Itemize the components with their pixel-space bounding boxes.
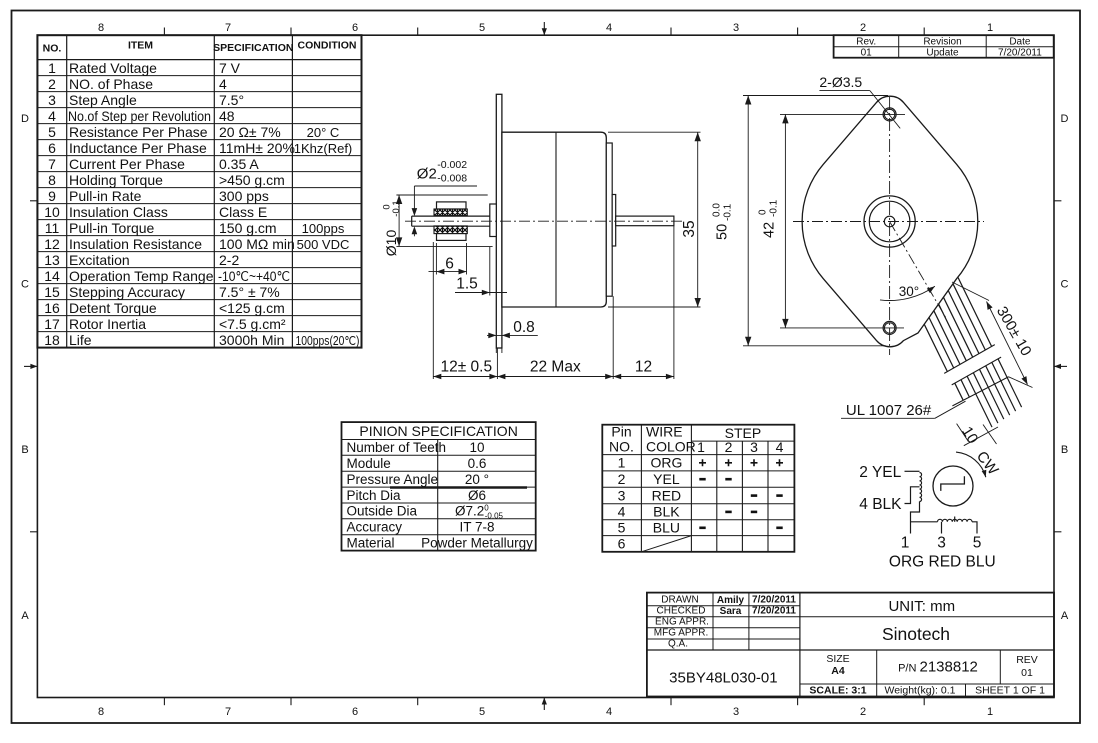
svg-text:Class E: Class E: [219, 204, 267, 220]
svg-text:Excitation: Excitation: [69, 252, 130, 268]
svg-text:Date: Date: [1009, 36, 1031, 47]
rotor symbol inside circle: [941, 476, 965, 491]
pinion table thick scan line: [390, 486, 527, 489]
svg-text:4: 4: [776, 439, 784, 455]
svg-text:01: 01: [1021, 667, 1033, 679]
front view: flange outline: [802, 96, 978, 347]
side view: pinion top cap: [437, 202, 467, 209]
svg-text:20° C: 20° C: [307, 125, 340, 140]
svg-text:<7.5 g.cm²: <7.5 g.cm²: [219, 316, 286, 332]
svg-text:5: 5: [479, 22, 485, 34]
svg-text:14: 14: [44, 268, 60, 284]
svg-text:C: C: [21, 279, 29, 291]
svg-text:0.6: 0.6: [468, 456, 487, 471]
dimension 42 0/-0.1: [780, 113, 905, 115]
svg-text:-0.002: -0.002: [437, 159, 467, 171]
svg-text:6: 6: [445, 256, 454, 273]
svg-text:NO. of Phase: NO. of Phase: [69, 76, 153, 92]
svg-text:Ø10: Ø10: [383, 230, 399, 257]
svg-text:100 MΩ min: 100 MΩ min: [219, 236, 295, 252]
svg-text:3: 3: [733, 22, 739, 34]
svg-text:RED: RED: [652, 487, 682, 503]
coil B (horizontal): [938, 519, 973, 521]
svg-text:Powder Metallurgy: Powder Metallurgy: [421, 536, 533, 551]
wire from BLK to coil tap: [905, 487, 920, 504]
svg-text:1: 1: [48, 60, 56, 76]
svg-text:01: 01: [861, 48, 873, 59]
svg-text:12± 0.5: 12± 0.5: [440, 359, 492, 376]
svg-text:3: 3: [750, 439, 758, 455]
svg-text:Ø2: Ø2: [417, 166, 437, 183]
svg-text:Detent Torque: Detent Torque: [69, 300, 157, 316]
pin table grid: [640, 425, 642, 552]
svg-text:Insulation Class: Insulation Class: [69, 204, 168, 220]
svg-text:8: 8: [98, 706, 104, 718]
svg-text:5: 5: [48, 124, 56, 140]
svg-text:Sara: Sara: [720, 606, 742, 617]
svg-text:9: 9: [48, 188, 56, 204]
svg-text:7.5° ± 7%: 7.5° ± 7%: [219, 284, 280, 300]
svg-text:Resistance Per Phase: Resistance Per Phase: [69, 124, 208, 140]
cable wire strands section 2: [955, 383, 963, 400]
svg-text:B: B: [1061, 444, 1068, 456]
svg-text:4 BLK: 4 BLK: [859, 496, 902, 513]
svg-text:Rev.: Rev.: [856, 36, 876, 47]
svg-text:8: 8: [48, 172, 56, 188]
cable end edge: [952, 377, 1008, 406]
svg-text:5: 5: [479, 706, 485, 718]
cable wire tails: [967, 376, 992, 427]
svg-text:13: 13: [44, 252, 60, 268]
svg-text:15: 15: [44, 284, 60, 300]
svg-text:7.5°: 7.5°: [219, 92, 244, 108]
svg-text:3000h Min: 3000h Min: [219, 332, 284, 348]
svg-text:35: 35: [681, 220, 698, 237]
svg-text:ORG RED BLU: ORG RED BLU: [889, 554, 996, 571]
svg-text:Module: Module: [347, 456, 391, 471]
svg-text:Material: Material: [347, 536, 395, 551]
svg-text:4: 4: [618, 504, 626, 520]
pinion specification table frame: [342, 422, 536, 550]
svg-text:1Khz(Ref): 1Khz(Ref): [294, 141, 353, 156]
svg-text:2: 2: [860, 22, 866, 34]
svg-text:17: 17: [44, 316, 60, 332]
svg-text:1: 1: [987, 22, 993, 34]
side view: pinion bottom cap: [437, 234, 467, 241]
svg-text:COLOR: COLOR: [646, 439, 696, 455]
svg-text:3: 3: [937, 535, 946, 552]
svg-text:Current Per Phase: Current Per Phase: [69, 156, 185, 172]
svg-text:5: 5: [973, 535, 982, 552]
side view: body seam line: [555, 132, 557, 307]
zone boundary tick marks: [163, 28, 165, 36]
svg-text:6: 6: [352, 706, 358, 718]
revision table frame: [834, 35, 1054, 58]
node 3 stub: [941, 522, 943, 534]
wire from YEL to coil: [905, 470, 920, 472]
svg-text:35BY48L030-01: 35BY48L030-01: [669, 670, 777, 687]
side view: rear shaft: [616, 216, 674, 226]
svg-text:A: A: [21, 610, 29, 622]
svg-text:Sinotech: Sinotech: [882, 624, 950, 644]
svg-text:2-2: 2-2: [219, 252, 239, 268]
side view: centerline: [405, 220, 683, 222]
svg-text:0: 0: [758, 209, 769, 215]
svg-text:2 YEL: 2 YEL: [859, 464, 901, 481]
cable wire strands section 1: [924, 324, 947, 371]
svg-text:0.0: 0.0: [712, 203, 723, 217]
svg-text:SCALE: 3:1: SCALE: 3:1: [809, 685, 866, 697]
svg-text:3: 3: [733, 706, 739, 718]
centering marks with arrows: [543, 22, 545, 35]
svg-text:YEL: YEL: [653, 471, 680, 487]
svg-text:UNIT: mm: UNIT: mm: [888, 598, 955, 615]
svg-text:-10℃~+40℃: -10℃~+40℃: [218, 268, 290, 284]
svg-text:7/20/2011: 7/20/2011: [998, 48, 1042, 59]
svg-text:2: 2: [618, 471, 626, 487]
dimension 10 (stripped end): [957, 424, 969, 442]
svg-text:12: 12: [44, 236, 60, 252]
svg-text:WIRE: WIRE: [646, 424, 683, 440]
side view: mounting plate: [496, 94, 502, 348]
svg-text:SIZE: SIZE: [826, 653, 849, 665]
svg-text:Q.A.: Q.A.: [668, 639, 688, 650]
svg-text:1.5: 1.5: [456, 276, 478, 293]
svg-text:Pin: Pin: [611, 424, 631, 440]
CW rotation arc: [956, 452, 986, 477]
svg-text:2: 2: [860, 706, 866, 718]
svg-text:4: 4: [606, 22, 612, 34]
dimension 300 +-10 along cable: [952, 282, 989, 301]
svg-text:Rotor Inertia: Rotor Inertia: [69, 316, 146, 332]
svg-text:D: D: [1061, 113, 1069, 125]
front view: top mounting hole: [883, 108, 896, 121]
svg-text:42: 42: [762, 222, 778, 238]
svg-text:2: 2: [48, 76, 56, 92]
svg-text:0.8: 0.8: [513, 319, 535, 336]
svg-text:ENG APPR.: ENG APPR.: [655, 617, 709, 628]
pinion specification table grid: [437, 440, 439, 551]
svg-text:UL 1007 26#: UL 1007 26#: [846, 402, 932, 419]
svg-text:100pps(20℃): 100pps(20℃): [296, 334, 360, 348]
dimension chain 12+-0.5 / 22 Max / 12: [432, 242, 434, 379]
svg-text:-0.008: -0.008: [437, 173, 467, 185]
svg-text:Operation Temp Range: Operation Temp Range: [69, 268, 214, 284]
svg-text:No.of Step per Revolution: No.of Step per Revolution: [68, 108, 211, 124]
svg-text:300 pps: 300 pps: [219, 188, 269, 204]
svg-text:48: 48: [219, 108, 235, 124]
svg-text:7/20/2011: 7/20/2011: [752, 595, 796, 606]
svg-text:7 V: 7 V: [219, 60, 241, 76]
svg-text:18: 18: [44, 332, 60, 348]
svg-text:1: 1: [618, 455, 626, 471]
svg-text:SPECIFICATION: SPECIFICATION: [213, 42, 293, 54]
svg-text:4: 4: [48, 108, 56, 124]
title block grid: [799, 593, 801, 697]
svg-text:6: 6: [352, 22, 358, 34]
side view: pinion knurled band upper: [434, 209, 467, 216]
svg-text:DRAWN: DRAWN: [661, 595, 698, 606]
svg-text:C: C: [1061, 279, 1069, 291]
svg-text:50: 50: [715, 224, 731, 240]
svg-text:2-Ø3.5: 2-Ø3.5: [819, 74, 862, 90]
pin table row 6 diagonal: [641, 536, 691, 552]
svg-text:6: 6: [48, 140, 56, 156]
front view: shaft boss circles: [864, 196, 915, 247]
svg-text:BLK: BLK: [653, 504, 680, 520]
svg-text:-0.1: -0.1: [769, 199, 780, 217]
svg-text:7/20/2011: 7/20/2011: [752, 606, 796, 617]
svg-text:2: 2: [725, 439, 733, 455]
side view: rear end plate: [606, 143, 612, 296]
svg-text:100pps: 100pps: [302, 221, 345, 236]
svg-text:12: 12: [635, 359, 652, 376]
wire from coil A bottom to node 1: [911, 502, 920, 534]
svg-text:ITEM: ITEM: [128, 40, 153, 52]
title block frame: [647, 593, 1054, 697]
svg-text:D: D: [21, 113, 29, 125]
svg-text:Pull-in Torque: Pull-in Torque: [69, 220, 155, 236]
svg-text:11: 11: [45, 220, 60, 236]
svg-text:Inductance Per Phase: Inductance Per Phase: [69, 140, 207, 156]
svg-text:7: 7: [48, 156, 56, 172]
front view: vertical centerline: [889, 97, 891, 355]
dimension 1.5: [489, 247, 491, 296]
coil A (vertical): [920, 473, 922, 502]
svg-text:ORG: ORG: [650, 455, 682, 471]
svg-text:150 g.cm: 150 g.cm: [219, 220, 277, 236]
svg-text:Outside Dia: Outside Dia: [347, 504, 418, 519]
svg-text:1: 1: [987, 706, 993, 718]
svg-text:SHEET 1 OF 1: SHEET 1 OF 1: [975, 685, 1045, 697]
svg-text:<125 g.cm: <125 g.cm: [219, 300, 285, 316]
front view: 30 degree diagonal centerline: [890, 222, 946, 319]
svg-text:6: 6: [618, 536, 626, 552]
svg-text:REV: REV: [1016, 654, 1038, 666]
svg-text:Weight(kg): 0.1: Weight(kg): 0.1: [884, 685, 955, 697]
svg-text:16: 16: [44, 300, 60, 316]
svg-text:A4: A4: [831, 665, 845, 677]
svg-text:Pitch Dia: Pitch Dia: [347, 488, 402, 503]
side view: rear bearing boss: [612, 195, 616, 247]
svg-text:Life: Life: [69, 332, 92, 348]
svg-text:Insulation Resistance: Insulation Resistance: [69, 236, 202, 252]
svg-text:>450 g.cm: >450 g.cm: [219, 172, 285, 188]
svg-text:4: 4: [606, 706, 612, 718]
svg-text:-0.1: -0.1: [391, 200, 402, 216]
svg-text:Holding Torque: Holding Torque: [69, 172, 163, 188]
svg-text:NO.: NO.: [609, 439, 634, 455]
svg-text:3: 3: [48, 92, 56, 108]
svg-text:-0.1: -0.1: [723, 203, 734, 221]
svg-text:BLU: BLU: [653, 520, 680, 536]
svg-text:Stepping Accuracy: Stepping Accuracy: [69, 284, 185, 300]
specification table frame: [37, 35, 361, 347]
svg-text:Step Angle: Step Angle: [69, 92, 137, 108]
coil B center tap tick: [954, 517, 956, 522]
svg-text:500 VDC: 500 VDC: [297, 237, 350, 252]
svg-text:PINION SPECIFICATION: PINION SPECIFICATION: [359, 423, 517, 439]
svg-text:Ø6: Ø6: [468, 488, 486, 503]
svg-text:11mH± 20%: 11mH± 20%: [219, 140, 295, 156]
svg-text:MFG APPR.: MFG APPR.: [654, 628, 708, 639]
dimension 35 (body diameter): [608, 131, 701, 133]
svg-text:8: 8: [98, 22, 104, 34]
svg-text:22 Max: 22 Max: [530, 359, 581, 376]
dimension 50 0.0/-0.1: [743, 95, 888, 97]
svg-text:IT 7-8: IT 7-8: [459, 520, 494, 535]
svg-text:CONDITION: CONDITION: [298, 40, 357, 52]
specification table grid: [66, 35, 68, 347]
svg-text:7: 7: [225, 706, 231, 718]
svg-text:10: 10: [469, 440, 484, 455]
svg-text:Pull-in Rate: Pull-in Rate: [69, 188, 142, 204]
svg-text:A: A: [1061, 610, 1069, 622]
rotor circle: [933, 466, 973, 506]
svg-text:7: 7: [225, 22, 231, 34]
svg-text:0.35 A: 0.35 A: [219, 156, 259, 172]
dimension 30 degrees arc: [880, 286, 935, 300]
dimension 6 (pinion width): [435, 243, 437, 275]
svg-text:CHECKED: CHECKED: [657, 606, 706, 617]
svg-text:Amily: Amily: [717, 595, 745, 606]
side view: front bearing boss: [490, 204, 497, 237]
svg-text:1: 1: [901, 535, 910, 552]
svg-text:Number of Teeth: Number of Teeth: [347, 440, 447, 455]
pin wire color step table frame: [602, 425, 794, 552]
svg-text:Accuracy: Accuracy: [347, 520, 403, 535]
wire bus to coil B: [911, 521, 938, 523]
svg-text:4: 4: [219, 76, 227, 92]
front view: horizontal centerline: [793, 221, 984, 223]
front view: bottom mounting hole: [883, 321, 896, 334]
svg-text:Pressure Angle: Pressure Angle: [347, 472, 439, 487]
revision table grid: [834, 46, 1054, 48]
svg-text:Update: Update: [926, 48, 959, 59]
svg-text:3: 3: [618, 487, 626, 503]
svg-text:NO.: NO.: [43, 43, 62, 55]
side view: pinion knurled band lower: [434, 226, 467, 234]
dimension 0.8 (plate thickness): [487, 334, 538, 336]
svg-text:20 °: 20 °: [465, 472, 489, 487]
svg-text:Revision: Revision: [923, 36, 961, 47]
svg-text:10: 10: [44, 204, 60, 220]
svg-text:1: 1: [697, 439, 705, 455]
svg-text:5: 5: [618, 520, 626, 536]
side view: motor body: [502, 132, 606, 307]
side view: front shaft: [412, 215, 490, 217]
svg-text:Rated Voltage: Rated Voltage: [69, 60, 157, 76]
svg-text:B: B: [21, 444, 28, 456]
dimension &#216;10 0/-0.1: [396, 194, 487, 196]
node 5 stub: [972, 522, 977, 534]
svg-text:30°: 30°: [899, 284, 919, 299]
cable break separator lines: [944, 345, 995, 374]
svg-text:20 Ω± 7%: 20 Ω± 7%: [219, 124, 281, 140]
